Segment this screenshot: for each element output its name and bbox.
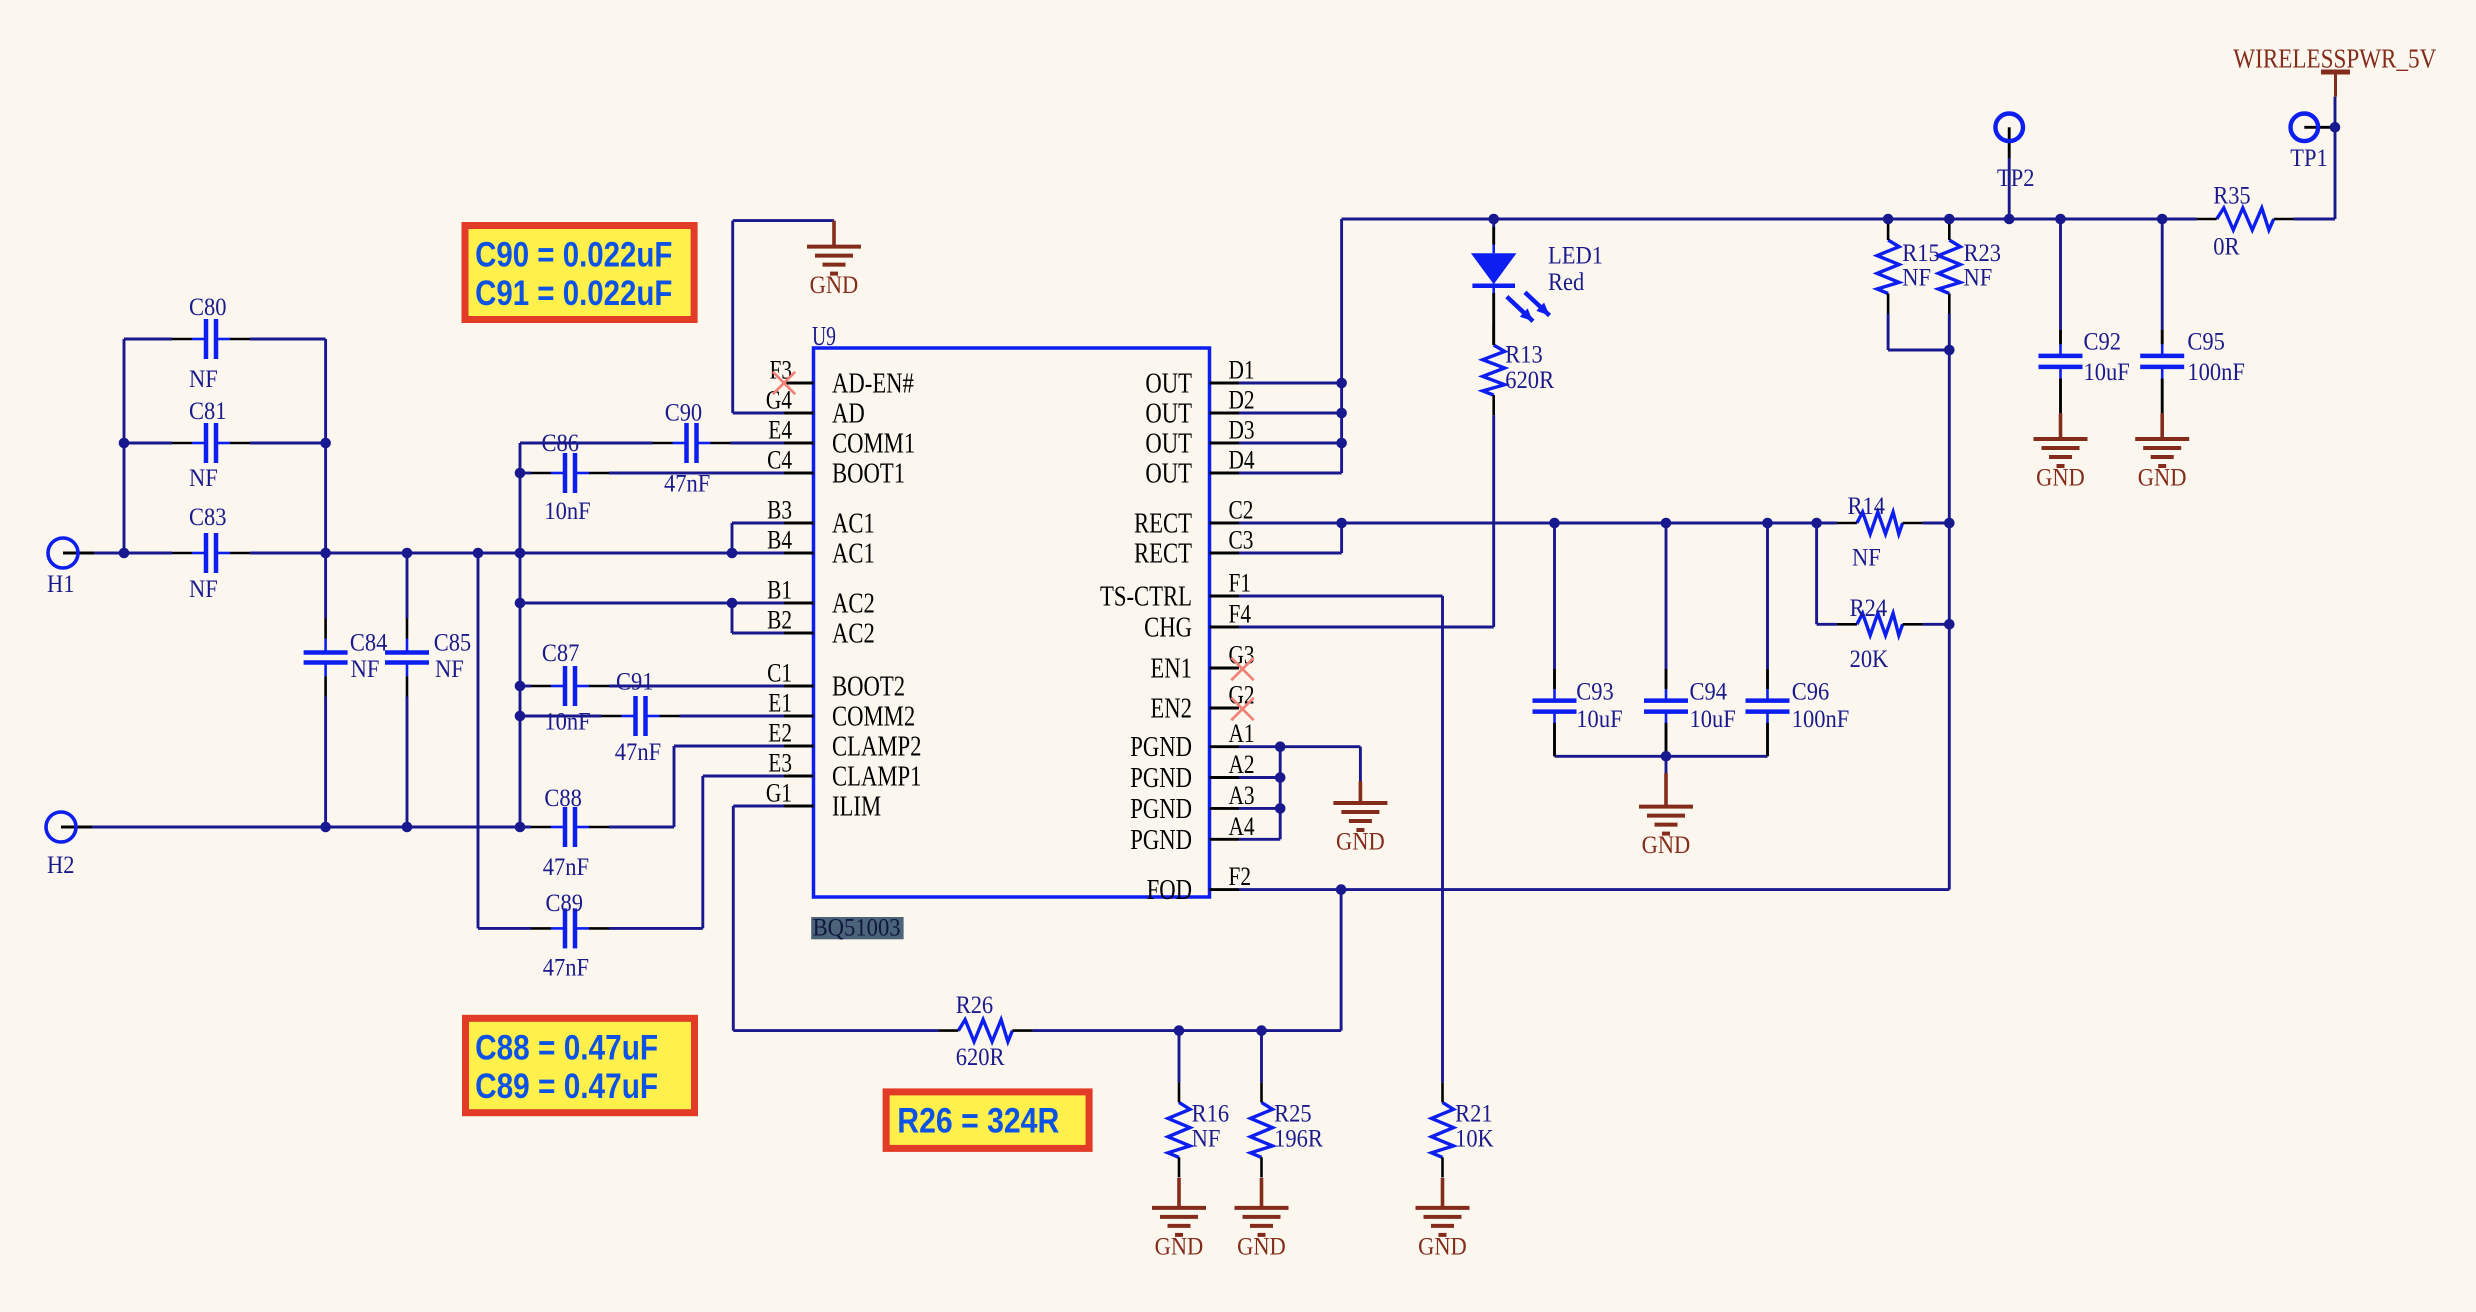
svg-text:620R: 620R: [1505, 367, 1554, 394]
svg-text:D4: D4: [1229, 446, 1255, 475]
svg-text:R15: R15: [1902, 240, 1940, 267]
svg-text:AD: AD: [832, 399, 865, 430]
svg-text:TS-CTRL: TS-CTRL: [1100, 582, 1192, 613]
svg-text:C85: C85: [434, 630, 472, 657]
svg-text:B3: B3: [767, 496, 792, 525]
svg-text:NF: NF: [1902, 265, 1931, 292]
svg-text:GND: GND: [1336, 829, 1385, 856]
svg-text:OUT: OUT: [1145, 399, 1192, 430]
svg-text:AC1: AC1: [832, 509, 875, 540]
svg-text:R26 = 324R: R26 = 324R: [897, 1102, 1059, 1141]
svg-text:H1: H1: [47, 571, 75, 598]
svg-text:B4: B4: [767, 526, 792, 555]
svg-text:196R: 196R: [1274, 1125, 1323, 1152]
svg-text:NF: NF: [189, 465, 218, 492]
svg-text:AC1: AC1: [832, 539, 875, 570]
svg-text:C88 = 0.47uF: C88 = 0.47uF: [475, 1029, 658, 1068]
svg-text:COMM1: COMM1: [832, 429, 915, 460]
svg-text:C4: C4: [767, 446, 792, 475]
svg-text:OUT: OUT: [1145, 429, 1192, 460]
svg-text:R35: R35: [2213, 183, 2251, 210]
svg-text:BOOT2: BOOT2: [832, 672, 905, 703]
svg-text:R26: R26: [956, 992, 994, 1019]
svg-text:B2: B2: [767, 606, 792, 635]
svg-text:RECT: RECT: [1134, 539, 1192, 570]
svg-text:A2: A2: [1229, 750, 1255, 779]
svg-text:20K: 20K: [1850, 646, 1889, 673]
svg-text:WIRELESSPWR_5V: WIRELESSPWR_5V: [2233, 44, 2436, 74]
svg-text:RECT: RECT: [1134, 509, 1192, 540]
svg-text:BQ51003: BQ51003: [813, 915, 901, 942]
svg-text:EN2: EN2: [1150, 694, 1192, 725]
svg-text:NF: NF: [1192, 1125, 1221, 1152]
svg-text:GND: GND: [1155, 1233, 1204, 1260]
svg-text:TP2: TP2: [1997, 165, 2035, 192]
svg-text:AC2: AC2: [832, 589, 875, 620]
svg-text:A3: A3: [1229, 781, 1255, 810]
svg-text:C89: C89: [546, 890, 584, 917]
svg-text:GND: GND: [1237, 1233, 1286, 1260]
svg-text:10nF: 10nF: [544, 498, 590, 525]
svg-text:C89 = 0.47uF: C89 = 0.47uF: [475, 1067, 658, 1106]
svg-text:C84: C84: [350, 630, 388, 657]
svg-text:C80: C80: [189, 294, 227, 321]
svg-text:AD-EN#: AD-EN#: [832, 369, 914, 400]
svg-text:GND: GND: [1418, 1233, 1467, 1260]
svg-text:C92: C92: [2084, 328, 2122, 355]
svg-text:R13: R13: [1505, 342, 1543, 369]
svg-text:R16: R16: [1192, 1101, 1230, 1128]
svg-text:PGND: PGND: [1130, 732, 1192, 763]
svg-text:R21: R21: [1455, 1101, 1493, 1128]
svg-text:C90: C90: [665, 399, 703, 426]
svg-text:GND: GND: [1642, 832, 1691, 859]
svg-text:D2: D2: [1229, 386, 1255, 415]
svg-text:CLAMP1: CLAMP1: [832, 762, 922, 793]
svg-text:C3: C3: [1229, 526, 1254, 555]
svg-text:620R: 620R: [956, 1044, 1005, 1071]
svg-text:TP1: TP1: [2290, 145, 2328, 172]
svg-text:COMM2: COMM2: [832, 702, 915, 733]
svg-text:BOOT1: BOOT1: [832, 459, 905, 490]
svg-text:PGND: PGND: [1130, 763, 1192, 794]
svg-text:100nF: 100nF: [2187, 359, 2245, 386]
svg-text:OUT: OUT: [1145, 369, 1192, 400]
svg-text:AC2: AC2: [832, 619, 875, 650]
svg-text:F2: F2: [1229, 862, 1252, 891]
svg-text:R14: R14: [1848, 493, 1886, 520]
svg-text:C91 = 0.022uF: C91 = 0.022uF: [475, 274, 672, 313]
svg-text:R25: R25: [1274, 1101, 1312, 1128]
svg-text:R23: R23: [1964, 240, 2002, 267]
svg-text:C83: C83: [189, 504, 227, 531]
svg-text:E2: E2: [768, 719, 792, 748]
svg-text:ILIM: ILIM: [832, 792, 881, 823]
svg-text:U9: U9: [812, 321, 836, 351]
svg-text:47nF: 47nF: [615, 739, 661, 766]
svg-text:A1: A1: [1229, 719, 1255, 748]
svg-text:NF: NF: [435, 656, 464, 683]
svg-text:C2: C2: [1229, 496, 1254, 525]
svg-text:Red: Red: [1548, 269, 1585, 296]
svg-text:0R: 0R: [2213, 234, 2240, 261]
svg-text:C1: C1: [767, 659, 792, 688]
svg-text:R24: R24: [1850, 595, 1888, 622]
svg-text:G3: G3: [1229, 641, 1255, 670]
svg-text:47nF: 47nF: [543, 854, 589, 881]
svg-text:NF: NF: [1852, 545, 1881, 572]
svg-text:E1: E1: [768, 689, 792, 718]
svg-text:10uF: 10uF: [2084, 359, 2130, 386]
svg-text:C94: C94: [1690, 678, 1728, 705]
svg-text:B1: B1: [767, 576, 792, 605]
svg-text:10nF: 10nF: [544, 709, 590, 736]
svg-text:47nF: 47nF: [543, 955, 589, 982]
svg-text:10uF: 10uF: [1576, 706, 1622, 733]
svg-text:47nF: 47nF: [664, 470, 710, 497]
svg-text:CHG: CHG: [1144, 613, 1192, 644]
svg-text:NF: NF: [189, 366, 218, 393]
svg-text:LED1: LED1: [1548, 242, 1603, 269]
svg-text:G2: G2: [1229, 681, 1255, 710]
svg-text:E3: E3: [768, 749, 792, 778]
svg-text:C86: C86: [542, 430, 580, 457]
svg-text:GND: GND: [2138, 465, 2187, 492]
svg-text:CLAMP2: CLAMP2: [832, 732, 922, 763]
svg-text:C96: C96: [1792, 678, 1830, 705]
svg-text:PGND: PGND: [1130, 825, 1192, 856]
svg-text:G1: G1: [766, 779, 792, 808]
svg-text:10uF: 10uF: [1690, 706, 1736, 733]
svg-text:NF: NF: [1964, 265, 1993, 292]
svg-text:C88: C88: [544, 785, 582, 812]
svg-text:D3: D3: [1229, 416, 1255, 445]
svg-text:A4: A4: [1229, 812, 1255, 841]
svg-text:10K: 10K: [1455, 1125, 1494, 1152]
svg-text:C91: C91: [616, 669, 654, 696]
svg-text:D1: D1: [1229, 356, 1255, 385]
svg-text:E4: E4: [768, 416, 792, 445]
svg-text:GND: GND: [2036, 465, 2085, 492]
svg-text:EN1: EN1: [1150, 654, 1192, 685]
svg-text:C95: C95: [2187, 328, 2225, 355]
svg-text:NF: NF: [351, 656, 380, 683]
svg-text:C90 = 0.022uF: C90 = 0.022uF: [475, 236, 672, 275]
svg-text:C93: C93: [1576, 678, 1614, 705]
svg-text:100nF: 100nF: [1792, 706, 1850, 733]
svg-text:F1: F1: [1229, 569, 1252, 598]
svg-text:H2: H2: [47, 852, 75, 879]
svg-text:OUT: OUT: [1145, 459, 1192, 490]
svg-text:C87: C87: [542, 640, 580, 667]
svg-text:F4: F4: [1229, 600, 1252, 629]
svg-text:GND: GND: [810, 272, 859, 299]
svg-text:FOD: FOD: [1147, 875, 1192, 906]
svg-text:C81: C81: [189, 398, 227, 425]
svg-text:PGND: PGND: [1130, 794, 1192, 825]
svg-text:NF: NF: [189, 576, 218, 603]
